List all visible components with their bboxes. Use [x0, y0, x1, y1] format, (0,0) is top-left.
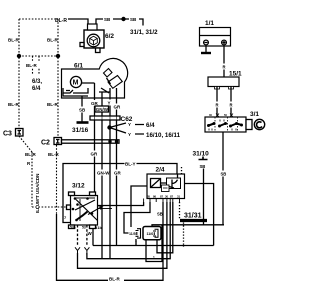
connector C62	[90, 116, 133, 123]
limit switch in 6/1	[63, 83, 95, 93]
svg-text:R: R	[230, 103, 233, 108]
battery 1/1	[200, 20, 231, 46]
switch pins 3/12	[69, 192, 75, 196]
wire C2 horizontal to GR/Y wires	[62, 140, 120, 143]
wire dashed vertical ILLUM	[31, 152, 33, 207]
wire dashed diagonal from C3	[19, 136, 32, 152]
node dot left	[17, 54, 21, 58]
svg-text:2/4: 2/4	[156, 167, 165, 174]
wire solid to pump 6/2	[68, 19, 88, 24]
svg-text:6/4: 6/4	[146, 122, 155, 129]
wire loop around lamps	[93, 245, 214, 247]
pump 6/2	[80, 24, 114, 53]
svg-text:GR: GR	[114, 105, 122, 110]
wire W label	[92, 229, 94, 246]
switch 3/12	[64, 183, 112, 231]
svg-text:BL-R: BL-R	[55, 18, 67, 24]
wire BL-R dashed left vertical	[18, 19, 20, 128]
wire BL-R dashed top horizontal	[19, 18, 55, 20]
motor M in 6/1	[70, 76, 81, 87]
wire labels under 6/1	[91, 100, 123, 110]
svg-text:M: M	[73, 80, 79, 87]
wire labels GR / GN-W / GR mid	[90, 151, 123, 176]
svg-text:SB: SB	[157, 212, 163, 217]
svg-text:87: 87	[160, 195, 164, 199]
svg-text:SB: SB	[221, 172, 227, 177]
wire dotted relay pin down	[183, 223, 185, 248]
svg-text:86: 86	[153, 195, 157, 199]
svg-text:16/10, 16/11: 16/10, 16/11	[146, 132, 181, 139]
node junction dot top	[121, 17, 125, 21]
svg-text:31b: 31b	[95, 225, 102, 230]
svg-text:BL-R: BL-R	[109, 277, 120, 282]
svg-text:Y: Y	[128, 132, 131, 137]
wire outer BL-R loop	[57, 202, 164, 280]
svg-text:BL-R: BL-R	[47, 102, 58, 107]
relay 2/4	[144, 167, 185, 203]
wire SB labels	[103, 16, 139, 23]
crank blades in 6/1	[104, 69, 113, 78]
svg-text:6/1: 6/1	[74, 63, 83, 70]
connector C3	[3, 129, 23, 138]
svg-text:53a: 53a	[70, 226, 76, 230]
svg-text:BL-R: BL-R	[25, 152, 36, 157]
svg-text:Y: Y	[108, 101, 111, 106]
wire GR right from 6/1	[116, 88, 118, 246]
svg-text:BL-R: BL-R	[8, 38, 19, 43]
svg-text:GR: GR	[114, 171, 122, 176]
label GN/W boxed	[95, 106, 109, 112]
connector C2	[41, 138, 62, 147]
svg-text:GR: GR	[91, 101, 99, 106]
wire BL-Y from switch to relay	[63, 164, 177, 223]
fuse box 15/1	[208, 71, 242, 90]
svg-text:SB: SB	[130, 17, 137, 22]
ground battery	[205, 46, 207, 53]
svg-text:87: 87	[170, 195, 174, 199]
ignition switch 3/1	[205, 111, 265, 132]
svg-text:R: R	[223, 65, 226, 70]
svg-text:3/1: 3/1	[250, 111, 259, 118]
wire Y from 6/1	[109, 88, 111, 259]
svg-text:3/12: 3/12	[72, 183, 85, 190]
wire GN/W from 6/1	[101, 92, 103, 259]
wire dashed to switch left pin	[32, 206, 66, 208]
key cylinder 3/1	[246, 120, 252, 130]
wire 11/6 right pin loop to relay	[157, 202, 173, 253]
wire relay left exit	[131, 186, 147, 227]
svg-text:6/2: 6/2	[105, 33, 114, 40]
svg-text:53: 53	[82, 226, 86, 230]
relay pins	[144, 199, 180, 203]
svg-text:6/4: 6/4	[32, 86, 41, 92]
lamp 11/5	[129, 229, 141, 243]
wire BL-R dashed below C2	[56, 145, 58, 214]
svg-text:31/1, 31/2: 31/1, 31/2	[130, 29, 158, 36]
svg-text:GN-W: GN-W	[97, 171, 110, 176]
ground 31/16	[77, 121, 89, 124]
wire BL-R bottom label	[108, 276, 124, 282]
wire switch p2 to relay pin via H268.3	[77, 225, 79, 247]
wire BL-R dashed right vertical to C2	[57, 19, 59, 137]
wire fuse to switch right	[230, 87, 232, 118]
wire switch p3 to relay pin via H258.7	[86, 225, 88, 247]
svg-text:Y: Y	[128, 122, 131, 127]
svg-text:BL-R: BL-R	[48, 152, 59, 157]
svg-text:GN/W: GN/W	[96, 107, 109, 112]
wire SB ground from 6/1	[81, 96, 83, 122]
wire relay right exit loop	[185, 184, 214, 246]
wire 11/5 bottom pin	[135, 239, 137, 246]
svg-text:1/1: 1/1	[205, 20, 214, 27]
svg-text:C2: C2	[41, 140, 50, 147]
wire 11/6 bottom loop	[146, 225, 162, 262]
svg-text:ILLUM'T USA/CDN: ILLUM'T USA/CDN	[35, 174, 40, 213]
svg-text:SB: SB	[104, 17, 111, 22]
wire GR from 6/1	[94, 83, 96, 195]
node junction Y fan-out	[107, 125, 111, 129]
svg-text:SB: SB	[200, 164, 206, 169]
svg-text:11/5: 11/5	[129, 232, 136, 236]
svg-text:30: 30	[165, 195, 169, 199]
svg-text:31/10: 31/10	[193, 151, 210, 158]
wire SB top right	[96, 19, 143, 26]
svg-text:31/31: 31/31	[184, 213, 202, 220]
svg-text:SB: SB	[79, 108, 86, 113]
svg-text:BL-R: BL-R	[8, 102, 19, 107]
lamp 11/6	[143, 227, 161, 240]
node dot right	[56, 54, 60, 58]
wiper motor assembly 6/1	[62, 58, 128, 98]
wire dotted relay to ground 31/31	[179, 202, 181, 219]
svg-text:11/6: 11/6	[147, 232, 154, 236]
svg-text:31: 31	[177, 195, 181, 199]
wire dotted above relay	[181, 167, 183, 174]
svg-text:BL-R: BL-R	[26, 63, 37, 68]
relay coil	[151, 179, 161, 188]
wire dashed horizontal between dots	[19, 55, 58, 57]
node dots on C2 wire	[108, 140, 111, 143]
wire SB ignition down	[222, 132, 224, 225]
svg-text:85: 85	[147, 195, 151, 199]
svg-text:6/3,: 6/3,	[32, 79, 42, 85]
wire fuse to switch left	[216, 87, 218, 118]
wire relay pin to switch (y205.5)	[97, 202, 144, 206]
wire R battery to fuse	[223, 46, 225, 77]
wire relay pin2 loop (y212.5)	[124, 202, 150, 233]
svg-text:GR: GR	[91, 152, 99, 157]
wire from 31/10 down	[152, 169, 224, 228]
wire stubs to 6/3 6/4	[33, 56, 40, 74]
switch contacts 3/12	[74, 197, 95, 199]
connector symbols on wires	[75, 247, 89, 255]
svg-text:C3: C3	[3, 131, 12, 138]
svg-text:BL-Y: BL-Y	[125, 162, 136, 167]
wire BL-R label below C3	[25, 152, 36, 166]
svg-text:BL-R: BL-R	[47, 38, 58, 43]
relay contact	[167, 178, 181, 189]
svg-text:31/16: 31/16	[72, 127, 89, 134]
svg-text:R: R	[216, 103, 219, 108]
